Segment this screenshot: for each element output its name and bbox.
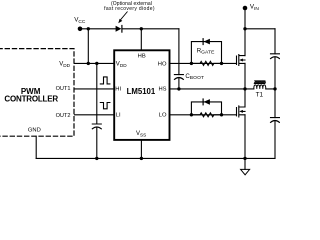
junction CBOOT/HS <box>177 87 180 90</box>
svg-text:T1: T1 <box>256 91 264 98</box>
transistor Q2 low-side MOSFET <box>237 106 246 117</box>
svg-text:LM5101: LM5101 <box>127 87 156 96</box>
transistor Q2 body arrow <box>239 110 243 113</box>
svg-text:HB: HB <box>138 53 146 59</box>
capacitor decoupling <box>92 124 101 129</box>
diode D1 bootstrap <box>116 26 122 32</box>
svg-text:VDD: VDD <box>59 62 70 68</box>
junction LO loop right <box>220 113 223 116</box>
ground <box>241 169 250 174</box>
node VIN terminal <box>243 6 248 11</box>
svg-text:OUT2: OUT2 <box>56 113 71 119</box>
junction gnd VSS <box>140 157 143 160</box>
wire VIN rail <box>245 28 275 30</box>
capacitor C_BOOT <box>174 75 183 80</box>
capacitor input top right <box>271 54 280 59</box>
wire right branch <box>274 29 276 159</box>
junction HS/FET <box>243 87 246 90</box>
junction VDD row a <box>87 62 90 65</box>
wire CBOOT vertical bottom <box>178 78 180 89</box>
pulse symbol OUT2 (inverted) <box>100 103 110 109</box>
junction LO loop left <box>190 113 193 116</box>
wire decoupling vertical <box>96 63 98 158</box>
wire LO row <box>170 114 237 116</box>
resistor low-side gate <box>191 113 221 117</box>
wire HS row <box>170 88 276 90</box>
svg-text:OUT1: OUT1 <box>56 86 71 92</box>
svg-text:HI: HI <box>115 87 121 93</box>
annotation arrow line <box>121 12 128 20</box>
diode high-side loop <box>204 39 210 45</box>
svg-text:CONTROLLER: CONTROLLER <box>4 94 58 103</box>
wire ground stub <box>244 158 246 169</box>
svg-text:VDD: VDD <box>116 62 127 68</box>
junction VDD row b <box>95 62 98 65</box>
resistor R_GATE <box>191 61 221 65</box>
junction gnd FET <box>243 157 246 160</box>
junction gnd decoupling <box>95 157 98 160</box>
junction VCC/VDD <box>87 27 90 30</box>
wire HO row <box>170 62 237 64</box>
wire low FET drain <box>244 89 246 158</box>
LM5101 box <box>114 50 169 140</box>
wire HI row left <box>75 88 115 90</box>
svg-text:HS: HS <box>158 87 166 93</box>
svg-text:LO: LO <box>159 113 167 119</box>
pulse symbol OUT1 <box>100 77 110 84</box>
wire GND pin <box>35 136 37 158</box>
svg-text:HO: HO <box>158 61 167 67</box>
junction HS/cap right <box>273 87 276 90</box>
node VCC terminal <box>78 27 83 32</box>
svg-text:GND: GND <box>28 127 41 133</box>
wire LO loop <box>191 102 221 115</box>
wire HB stub <box>140 29 142 51</box>
transformer T1 core <box>254 81 266 84</box>
wire VCC to VDD vertical <box>87 29 89 64</box>
junction VIN <box>243 27 246 30</box>
capacitor output right <box>271 118 280 123</box>
wire high FET source to HS <box>244 63 246 89</box>
transformer T1 coil <box>254 85 266 89</box>
transistor Q1 body arrow <box>239 59 243 62</box>
junction HO loop left <box>190 62 193 65</box>
diode low-side loop <box>204 99 210 105</box>
wire CBOOT vertical top <box>178 29 180 75</box>
wire VDD row left <box>75 62 115 64</box>
PWM controller dashed box <box>0 49 74 137</box>
wire HO loop <box>191 42 221 64</box>
wire VCC rail <box>82 28 179 30</box>
junction HO loop right <box>220 62 223 65</box>
wire VSS stub <box>140 140 142 159</box>
svg-text:fast recovery diode): fast recovery diode) <box>104 6 155 12</box>
svg-text:LI: LI <box>116 113 121 119</box>
wire LI row left <box>75 114 115 116</box>
junction HB <box>140 27 143 30</box>
annotation arrowhead <box>118 19 122 24</box>
wire VIN vertical <box>244 8 246 56</box>
svg-text:VSS: VSS <box>136 131 146 137</box>
wire ground rail <box>36 157 275 159</box>
transistor Q1 high-side MOSFET <box>237 55 246 66</box>
